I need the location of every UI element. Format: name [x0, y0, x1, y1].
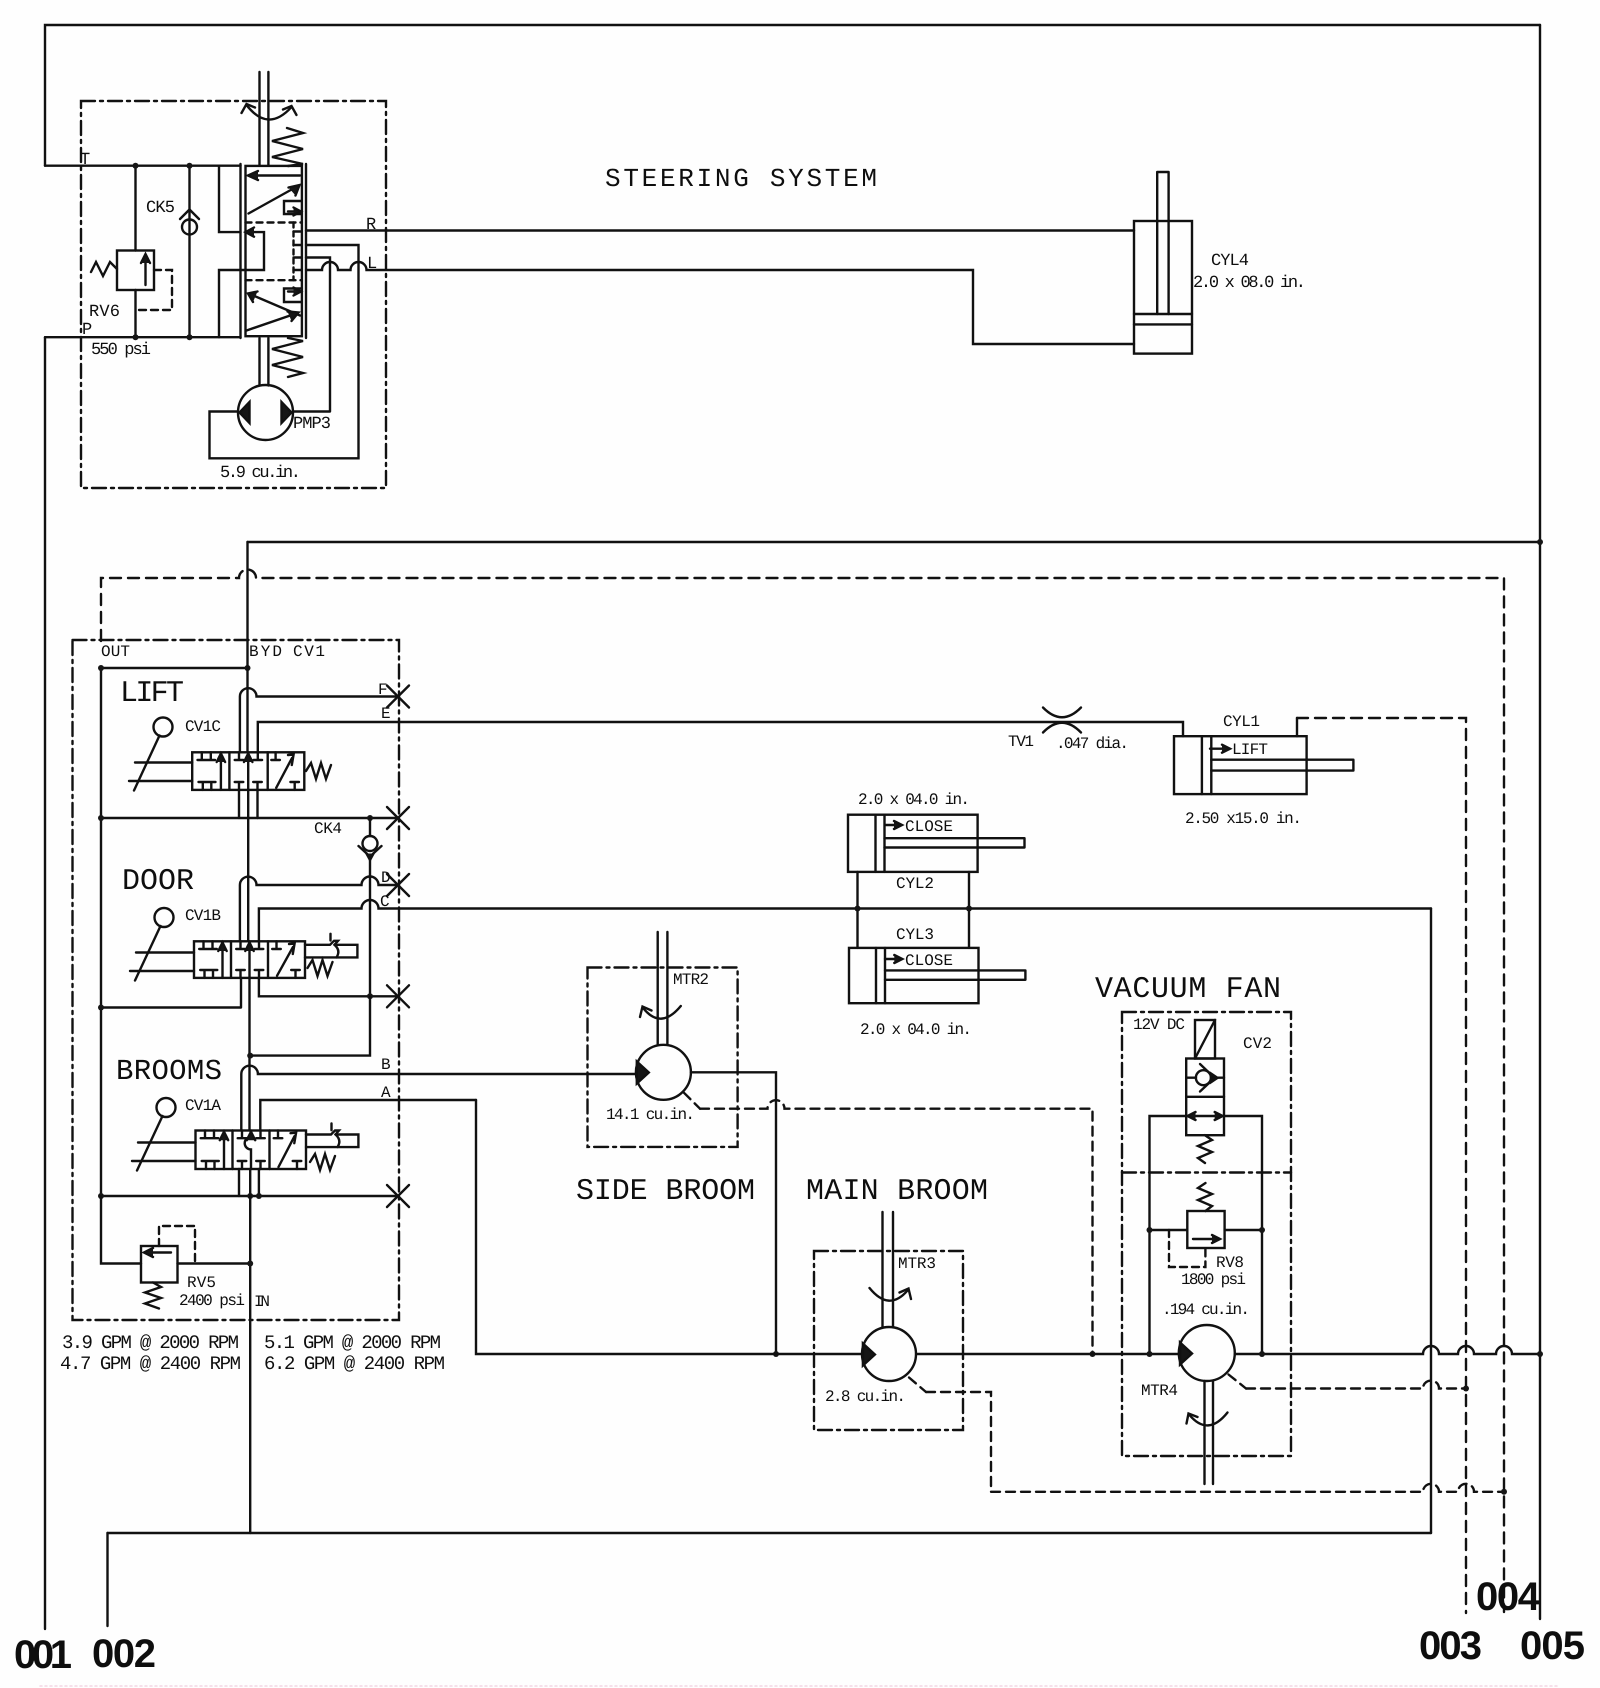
svg-text:CYL3: CYL3 [896, 926, 934, 944]
spring CV1C [306, 763, 331, 779]
valve CV1A left cell internals [201, 1131, 229, 1170]
port plug D [387, 874, 409, 896]
svg-text:MAIN BROOM: MAIN BROOM [806, 1175, 989, 1209]
svg-text:PMP3: PMP3 [293, 415, 331, 434]
steering rotation arrows [242, 104, 297, 120]
svg-text:2.0 x 04.0 in.: 2.0 x 04.0 in. [858, 791, 970, 809]
orifice TV1 [1043, 708, 1081, 733]
wire B line to MTR2 [241, 1066, 635, 1131]
node OUT-818 [98, 815, 104, 821]
manifold CV1 enclosure (dash-dot box) [73, 640, 400, 1320]
svg-text:BROOMS: BROOMS [116, 1055, 224, 1088]
node BYD-668 [245, 665, 251, 671]
svg-text:2.50 x15.0 in.: 2.50 x15.0 in. [1185, 810, 1302, 828]
wire CV1A bottom risers [239, 1169, 259, 1196]
svg-text:CV1A: CV1A [185, 1097, 221, 1115]
node riser2-1196 [256, 1193, 262, 1199]
node MTR2-main [773, 1351, 779, 1357]
steering column shaft [260, 72, 269, 165]
svg-text:LIFT: LIFT [1232, 741, 1268, 759]
svg-text:5.9 cu.in.: 5.9 cu.in. [220, 464, 301, 483]
valve CV3 bottom position internals [247, 288, 302, 331]
svg-text:4.7 GPM @ 2400 RPM: 4.7 GPM @ 2400 RPM [60, 1353, 241, 1375]
node CK4-996 [367, 993, 373, 999]
svg-text:RV5: RV5 [187, 1274, 216, 1292]
motor MTR2 [636, 1045, 691, 1100]
node P-RV6 [133, 334, 139, 340]
cylinder CYL4 [1134, 172, 1192, 354]
valve CV1C left cell internals [198, 752, 226, 790]
node OUT-1196 [98, 1193, 104, 1199]
cylinder CYL1 [1174, 736, 1353, 794]
wire MTR2 outlet [691, 1072, 776, 1354]
svg-text:CLOSE: CLOSE [905, 952, 953, 970]
node CK4-top [367, 815, 373, 821]
wire CV2 left leg [1150, 1116, 1187, 1354]
svg-text:LIFT: LIFT [120, 677, 186, 711]
valve CV1B left cell internals [199, 941, 227, 978]
svg-text:004: 004 [1476, 1575, 1541, 1619]
wire L line [306, 262, 1134, 344]
valve CV2 body [1186, 1059, 1224, 1136]
motor MTR2 enclosure [588, 968, 738, 1147]
valve CV3 top position internals [248, 171, 302, 216]
drain MTR2 dashed [684, 1093, 1093, 1354]
border right edge / 005 line [1539, 25, 1541, 1619]
wire R line [306, 229, 1134, 231]
arrow LIFT in CYL1 [1210, 745, 1230, 753]
node RV8-left [1147, 1227, 1153, 1233]
wire DOOR tank line [101, 978, 241, 1008]
spring CV3 top [272, 128, 303, 166]
arrow CLOSE in CYL3 [885, 955, 902, 963]
svg-text:STEERING SYSTEM: STEERING SYSTEM [605, 164, 877, 194]
svg-text:002: 002 [92, 1632, 156, 1676]
svg-text:CYL4: CYL4 [1211, 252, 1249, 271]
solenoid CV2 [1195, 1020, 1215, 1059]
svg-text:MTR3: MTR3 [898, 1255, 936, 1273]
node riser-1055 [247, 1053, 253, 1059]
wire P to valve port [219, 270, 241, 337]
svg-text:D: D [381, 869, 391, 887]
valve CV3 body [241, 164, 307, 338]
motor MTR4 [1179, 1325, 1235, 1381]
wire CYL2-CYL3 left link [856, 872, 858, 948]
svg-text:550 psi: 550 psi [91, 341, 151, 360]
node IN-RV5 [247, 1261, 253, 1267]
wire A line [260, 1100, 476, 1131]
valve CV1C centre cell internals [235, 752, 262, 790]
valve CV1C body [192, 752, 304, 790]
wire CV1C bottom risers [239, 790, 258, 818]
svg-text:005: 005 [1520, 1624, 1585, 1668]
svg-text:SIDE BROOM: SIDE BROOM [576, 1175, 756, 1209]
node C-left [855, 906, 861, 912]
wire OUT top horizontal [101, 667, 248, 669]
node RV8-right [1259, 1227, 1265, 1233]
svg-text:2.0 x 08.0 in.: 2.0 x 08.0 in. [1193, 274, 1306, 293]
motor MTR4 shaft [1205, 1381, 1214, 1484]
cylinder CYL2 [848, 815, 1025, 872]
svg-text:L: L [367, 255, 377, 274]
wire tank line y=818 [101, 817, 398, 819]
pump PMP3 [238, 385, 293, 440]
relief valve RV5 [101, 1196, 250, 1309]
wire P line [45, 336, 241, 338]
svg-text:MTR4: MTR4 [1141, 1382, 1178, 1400]
arrow CLOSE in CYL2 [885, 821, 902, 829]
svg-text:CV1C: CV1C [185, 718, 221, 736]
motor MTR3 rotation arrow [870, 1288, 912, 1301]
motor MTR4 rotation arrow [1187, 1413, 1228, 1426]
wire T to valve port [219, 166, 241, 232]
node CV2right-main [1259, 1351, 1265, 1357]
node main-005 [1537, 1351, 1543, 1357]
wire valve port2 to pump left [210, 245, 359, 458]
svg-text:B: B [381, 1056, 391, 1074]
motor MTR2 rotation arrow [640, 1006, 681, 1019]
valve CV1A body [196, 1131, 307, 1170]
svg-text:CK5: CK5 [146, 199, 175, 218]
node MTR2drain-main [1090, 1351, 1096, 1357]
svg-text:CV1B: CV1B [185, 907, 221, 925]
spring CV3 bottom [272, 338, 303, 377]
valve CV1A right cell internals [274, 1131, 302, 1170]
wire border return to BYD riser (y=542) [248, 541, 1541, 543]
pump drive shaft [260, 338, 269, 386]
lever CV1B [130, 908, 194, 981]
svg-text:C: C [380, 893, 390, 911]
valve CV1C right cell internals [271, 752, 299, 790]
svg-text:001: 001 [14, 1633, 72, 1677]
svg-text:CYL1: CYL1 [1223, 713, 1260, 731]
svg-text:CYL2: CYL2 [896, 875, 934, 893]
wire 002 drop [106, 1533, 108, 1626]
wire bottom return line [108, 1532, 1432, 1534]
spring CV1B [308, 960, 333, 976]
port plug 818 [387, 807, 409, 829]
wire 001 line (P drop to bottom) [44, 337, 46, 1629]
lever CV1C [129, 718, 192, 791]
svg-text:MTR2: MTR2 [673, 971, 709, 989]
svg-text:A: A [381, 1084, 391, 1102]
svg-text:2400 psi: 2400 psi [179, 1292, 245, 1310]
wire CYL2-CYL3 right link [968, 872, 970, 948]
valve CV3 centre position internals [241, 223, 302, 281]
svg-text:TV1: TV1 [1008, 733, 1034, 751]
check valve CK5 [180, 166, 199, 338]
port plug F [387, 686, 409, 708]
lever CV1A [132, 1098, 196, 1171]
node MTR3drain-004 [1501, 1489, 1507, 1495]
wire F line from CV1C [240, 688, 398, 752]
motor MTR3 enclosure [814, 1251, 963, 1430]
motor MTR3 [862, 1327, 916, 1381]
svg-text:14.1 cu.in.: 14.1 cu.in. [606, 1106, 695, 1124]
wire C line from CV1B to cylinders [259, 900, 1431, 941]
valve CV2 check position [1186, 1064, 1224, 1092]
wire C return drop [1430, 909, 1432, 1534]
detent CV1B [305, 934, 357, 958]
svg-text:CK4: CK4 [314, 820, 342, 838]
valve CV1B centre cell internals [236, 941, 263, 978]
svg-text:6.2 GPM @ 2400 RPM: 6.2 GPM @ 2400 RPM [264, 1353, 445, 1375]
valve CV1A centre cell internals [238, 1131, 265, 1170]
svg-text:.194 cu.in.: .194 cu.in. [1162, 1301, 1250, 1319]
node T-CK5 [187, 163, 193, 169]
outer border top and left [45, 25, 1540, 166]
drain MTR3 dashed [909, 1378, 1504, 1492]
wire E line from CV1C to CYL1 [258, 722, 1183, 752]
valve CV2 open position arrows [1188, 1112, 1223, 1120]
svg-text:DOOR: DOOR [122, 865, 196, 899]
node P-CK5 [187, 334, 193, 340]
wire BYD riser CV1B to CV1A [248, 978, 250, 1131]
svg-text:.047 dia.: .047 dia. [1056, 735, 1129, 753]
node CV2left-main [1147, 1351, 1153, 1357]
valve CV1B body [194, 941, 305, 978]
svg-text:2.8 cu.in.: 2.8 cu.in. [825, 1388, 906, 1406]
node riser-1196 [247, 1193, 253, 1199]
wire D line from CV1B [240, 877, 398, 942]
svg-text:CV1: CV1 [293, 643, 325, 661]
svg-text:CLOSE: CLOSE [905, 818, 953, 836]
svg-text:12V DC: 12V DC [1133, 1016, 1185, 1034]
svg-text:1800 psi: 1800 psi [1181, 1271, 1246, 1289]
svg-text:E: E [381, 705, 391, 723]
wire CV2 right leg [1224, 1116, 1262, 1354]
valve CV1B right cell internals [272, 941, 300, 978]
port plug 1196 [387, 1185, 409, 1207]
steering system enclosure (dash-dot box) [81, 101, 386, 488]
scanner artifact line [40, 1685, 1560, 1687]
motor MTR3 shaft [883, 1212, 894, 1327]
wire BYD riser upper [246, 542, 248, 752]
motor MTR2 shaft [658, 932, 668, 1045]
check valve CK4 [359, 818, 382, 996]
svg-text:003: 003 [1419, 1624, 1482, 1668]
svg-text:OUT: OUT [101, 643, 130, 661]
spring RV8 [1198, 1183, 1212, 1211]
node OUT-668 [98, 665, 104, 671]
big dashed supply line (top + right edge = 004 line) [101, 570, 1504, 1613]
spring CV2 [1198, 1135, 1212, 1163]
node OUT-1007 [98, 1005, 104, 1011]
svg-text:BYD: BYD [249, 643, 282, 661]
wire OUT vertical line [100, 668, 102, 1196]
node MTR4drain-003 [1463, 1386, 1469, 1392]
svg-text:2.0 x 04.0 in.: 2.0 x 04.0 in. [860, 1021, 972, 1039]
vacuum fan enclosure (dash-dot box) [1122, 1012, 1291, 1456]
spring CV1A [310, 1154, 335, 1170]
node 005-542 [1537, 539, 1543, 545]
svg-text:RV6: RV6 [89, 303, 120, 322]
svg-text:P: P [82, 321, 92, 340]
drain MTR4 dashed [1229, 1375, 1467, 1389]
svg-text:R: R [366, 216, 376, 235]
node C-right [966, 906, 972, 912]
port plug 996 [387, 985, 409, 1007]
wire BROOMS tank line [101, 1195, 398, 1197]
svg-text:T: T [80, 151, 90, 170]
svg-text:F: F [378, 681, 388, 699]
wire CYL1 rod end dashed to 003 line [1296, 718, 1298, 736]
svg-text:VACUUM FAN: VACUUM FAN [1095, 973, 1282, 1007]
wire CV1B bottom port line to plug [259, 978, 398, 996]
wire CK4 to BYD riser [250, 996, 370, 1055]
svg-text:CV2: CV2 [1243, 1035, 1272, 1053]
wire BYD riser CV1C to CV1B [247, 790, 249, 941]
node T-RV6 [133, 163, 139, 169]
wire IN riser [249, 1169, 251, 1533]
svg-text:IN: IN [254, 1293, 270, 1311]
svg-text:3.9 GPM @ 2000 RPM: 3.9 GPM @ 2000 RPM [62, 1332, 239, 1354]
svg-text:RV8: RV8 [1216, 1254, 1244, 1272]
wire T line [45, 164, 241, 166]
svg-text:5.1 GPM @ 2000 RPM: 5.1 GPM @ 2000 RPM [264, 1332, 441, 1354]
wire valve port3 to pump right [294, 258, 331, 412]
relief valve RV8 [1150, 1211, 1263, 1267]
wire A riser and main supply line [476, 1100, 1540, 1354]
relief valve RV6 [91, 166, 172, 338]
cylinder CYL3 [849, 948, 1025, 1003]
detent CV1A [306, 1124, 358, 1148]
